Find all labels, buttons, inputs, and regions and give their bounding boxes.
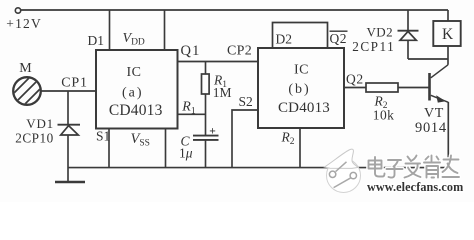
wire S2 pin to ground (232, 110, 258, 168)
terminal +12V (15, 8, 20, 13)
capacitor C1 plates (193, 136, 219, 140)
svg-text:VD2: VD2 (367, 24, 393, 39)
svg-text:VDD: VDD (123, 31, 145, 48)
wire VSS pin to ground (165, 129, 167, 168)
relay K box (433, 10, 460, 46)
wire Q1 to CP2 (178, 61, 259, 63)
svg-text:IC: IC (294, 62, 309, 77)
wire capacitor to ground (205, 141, 207, 168)
svg-text:R1: R1 (181, 100, 196, 117)
wire R1 top stub (205, 62, 207, 75)
wire S1 pin to ground (108, 129, 110, 168)
svg-text:1M: 1M (213, 85, 232, 100)
resistor R1 (202, 74, 210, 94)
svg-text:Q2: Q2 (346, 72, 364, 87)
svg-text:S1: S1 (96, 128, 110, 143)
wire CP1 (41, 90, 96, 92)
wire R1 bottom to capacitor (205, 94, 207, 135)
svg-text:VSS: VSS (131, 131, 150, 149)
diode VD1 (58, 125, 81, 182)
wire top +12V rail (21, 9, 448, 11)
wire R2 to base (398, 87, 429, 89)
svg-text:CP2: CP2 (227, 44, 252, 59)
wire VD2 bottom to collector node (408, 58, 448, 60)
svg-text:R2: R2 (281, 129, 295, 147)
svg-text:(a): (a) (122, 86, 144, 101)
watermark logo (325, 149, 361, 192)
svg-text:VT: VT (424, 106, 444, 121)
svg-text:CD4013: CD4013 (109, 102, 163, 119)
wire K bottom / collector node (447, 46, 449, 65)
wire emitter to ground (447, 102, 449, 168)
svg-text:D1: D1 (88, 33, 105, 48)
svg-text:M: M (19, 61, 32, 76)
svg-text:D2: D2 (276, 32, 293, 47)
transistor VT (430, 65, 449, 103)
wire M branch down to VD1 (67, 91, 69, 125)
svg-text:+12V: +12V (6, 16, 42, 31)
wire R1 pin of IC(a) (178, 113, 206, 115)
wire VDD pin to rail (164, 10, 166, 50)
IC U1a box (96, 50, 178, 129)
wire Q2 to R2 (344, 87, 366, 89)
ground rail (68, 167, 448, 169)
wire D1 pin to rail (109, 10, 111, 50)
svg-text:1μ: 1μ (179, 145, 193, 160)
ground symbol (55, 181, 85, 184)
svg-text:www.elecfans.com: www.elecfans.com (367, 180, 463, 194)
svg-text:S2: S2 (239, 94, 253, 109)
svg-text:CD4013: CD4013 (278, 100, 330, 116)
svg-text:K: K (442, 26, 454, 43)
svg-text:2CP10: 2CP10 (15, 131, 53, 146)
svg-text:CP1: CP1 (61, 76, 88, 91)
svg-text:VD1: VD1 (26, 116, 54, 131)
svg-text:+: + (209, 125, 216, 137)
wire R2 pin to ground (299, 128, 301, 168)
svg-text:IC: IC (127, 65, 142, 80)
svg-text:10k: 10k (373, 107, 394, 122)
svg-text:2CP11: 2CP11 (352, 39, 395, 54)
svg-text:(b): (b) (288, 82, 310, 97)
svg-text:Q1: Q1 (181, 43, 201, 59)
svg-text:Q2: Q2 (330, 31, 348, 46)
svg-text:9014: 9014 (415, 120, 447, 136)
microphone M (0, 71, 69, 105)
IC U1b box (258, 48, 344, 128)
resistor R2 (366, 83, 398, 92)
watermark text dianzifashaoyou (369, 156, 460, 178)
wire D2 to Q2-bar feedback box (273, 23, 328, 49)
diode VD2 (398, 10, 419, 59)
